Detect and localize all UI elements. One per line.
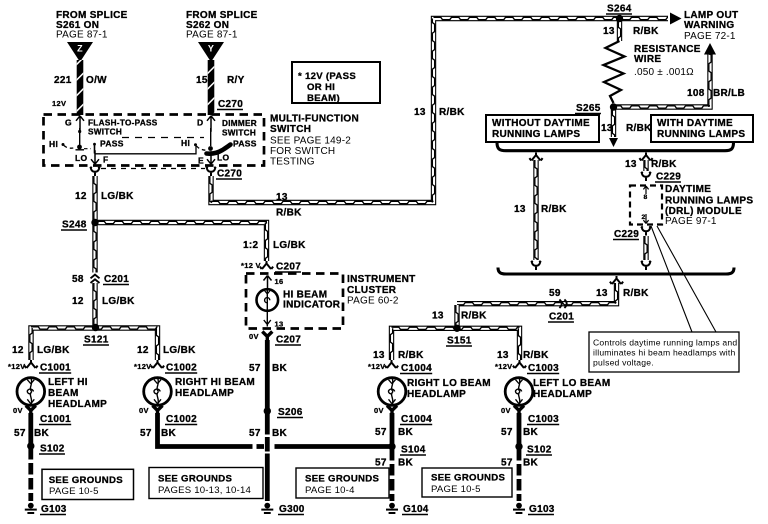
option bracket xyxy=(497,143,734,151)
svg-text:BK: BK xyxy=(523,427,539,438)
junction bus line xyxy=(498,268,734,275)
wire 13 R/BK from bus to C201 xyxy=(610,276,623,284)
svg-text:pulsed voltage.: pulsed voltage. xyxy=(593,358,654,368)
svg-text:PAGE 10-4: PAGE 10-4 xyxy=(305,485,355,496)
svg-text:C207: C207 xyxy=(276,335,301,346)
svg-text:57: 57 xyxy=(501,458,513,469)
svg-text:C1001: C1001 xyxy=(40,414,71,425)
wire BK to G104 xyxy=(390,449,395,501)
wire from DRL pin 2 to bus xyxy=(641,226,651,235)
wire 108 BR/LB to lamp out warning xyxy=(614,54,712,108)
svg-text:0V: 0V xyxy=(13,406,23,415)
svg-text:LO: LO xyxy=(217,153,229,163)
connector C1003 xyxy=(513,360,526,368)
wire 13 R/BK from S265 to bracket xyxy=(612,108,614,137)
svg-text:MULTI-FUNCTION: MULTI-FUNCTION xyxy=(270,114,359,125)
splice junction dots xyxy=(27,15,623,450)
svg-text:INDICATOR: INDICATOR xyxy=(283,300,341,311)
svg-text:13: 13 xyxy=(414,107,426,118)
ground bus wire to S104 xyxy=(158,444,253,447)
wire 57 BK left lo beam xyxy=(517,413,522,444)
wire 57 BK from indicator xyxy=(265,340,270,435)
dimmer lever to PASS xyxy=(207,145,231,154)
svg-text:PAGE 97-1: PAGE 97-1 xyxy=(665,216,717,227)
svg-text:13: 13 xyxy=(625,159,637,170)
svg-text:2: 2 xyxy=(642,214,646,221)
left lo beam headlamp bulb xyxy=(505,378,533,406)
svg-text:57: 57 xyxy=(249,428,261,439)
svg-text:illuminates hi beam headlamps: illuminates hi beam headlamps with xyxy=(593,348,735,358)
svg-text:12V: 12V xyxy=(52,99,66,108)
wire 13 R/BK to lo beam headlamps xyxy=(390,327,520,360)
svg-text:57: 57 xyxy=(14,428,26,439)
svg-text:BR/LB: BR/LB xyxy=(713,88,745,99)
svg-text:SWITCH: SWITCH xyxy=(222,129,256,138)
connector C1004 xyxy=(385,360,398,368)
wire BK to G103 xyxy=(28,448,33,501)
svg-text:221: 221 xyxy=(54,75,72,86)
svg-text:WARNING: WARNING xyxy=(684,20,734,31)
svg-text:*12V: *12V xyxy=(368,362,385,371)
svg-text:12: 12 xyxy=(137,345,149,356)
svg-text:16: 16 xyxy=(275,277,284,286)
wire 57 BK right lo beam xyxy=(390,413,395,444)
svg-text:BK: BK xyxy=(398,458,414,469)
connector C270 dashed link xyxy=(101,168,205,170)
svg-text:BK: BK xyxy=(523,458,539,469)
pin 13 xyxy=(264,311,271,327)
svg-text:C1002: C1002 xyxy=(166,363,197,374)
svg-text:RUNNING LAMPS: RUNNING LAMPS xyxy=(665,196,753,207)
svg-text:SEE GROUNDS: SEE GROUNDS xyxy=(431,473,506,484)
svg-text:C201: C201 xyxy=(549,312,574,323)
svg-text:G103: G103 xyxy=(529,504,555,515)
svg-text:57: 57 xyxy=(375,427,387,438)
svg-text:*12V: *12V xyxy=(495,362,512,371)
svg-text:HI: HI xyxy=(49,139,58,149)
wire 13 R/BK without DRL branch xyxy=(529,153,542,161)
svg-text:* 12V (PASS: * 12V (PASS xyxy=(298,71,356,82)
svg-text:S102: S102 xyxy=(40,444,65,455)
svg-text:RIGHT LO BEAM: RIGHT LO BEAM xyxy=(407,378,491,389)
svg-text:PAGE 87-1: PAGE 87-1 xyxy=(56,30,108,41)
DRL module box xyxy=(630,186,662,225)
connector C270 pin E xyxy=(206,167,216,176)
svg-text:13: 13 xyxy=(601,123,613,134)
see grounds box 1 xyxy=(42,469,134,499)
svg-text:HI: HI xyxy=(181,138,190,148)
svg-text:SWITCH: SWITCH xyxy=(88,128,122,137)
svg-text:C1004: C1004 xyxy=(401,414,432,425)
svg-text:LG/BK: LG/BK xyxy=(102,296,135,307)
svg-text:R/BK: R/BK xyxy=(651,159,677,170)
svg-text:RUNNING LAMPS: RUNNING LAMPS xyxy=(492,129,580,140)
svg-text:C1001: C1001 xyxy=(40,363,71,374)
svg-text:.050 ± .001Ω: .050 ± .001Ω xyxy=(634,67,694,78)
svg-text:WITH DAYTIME: WITH DAYTIME xyxy=(657,118,733,129)
svg-text:C1003: C1003 xyxy=(528,363,559,374)
see grounds box 2 xyxy=(149,468,263,499)
svg-text:R/BK: R/BK xyxy=(633,26,659,37)
svg-text:R/BK: R/BK xyxy=(626,123,652,134)
svg-text:F: F xyxy=(103,155,109,165)
svg-text:S104: S104 xyxy=(401,445,426,456)
svg-text:13: 13 xyxy=(275,320,284,329)
inline connector C201 58 xyxy=(91,275,100,283)
svg-text:FLASH-TO-PASS: FLASH-TO-PASS xyxy=(88,119,158,128)
svg-text:R/BK: R/BK xyxy=(461,311,487,322)
svg-text:R/BK: R/BK xyxy=(439,107,465,118)
svg-text:S102: S102 xyxy=(527,445,552,456)
svg-text:BEAM: BEAM xyxy=(48,388,79,399)
svg-text:HEADLAMP: HEADLAMP xyxy=(48,399,107,410)
svg-text:SEE GROUNDS: SEE GROUNDS xyxy=(158,474,233,485)
svg-text:Controls daytime running lamps: Controls daytime running lamps and xyxy=(593,338,737,348)
connector C1001 xyxy=(24,360,37,368)
svg-text:LEFT HI: LEFT HI xyxy=(48,377,88,388)
svg-text:C207: C207 xyxy=(276,262,301,273)
see grounds box 3 xyxy=(296,468,389,498)
ground G300 xyxy=(261,503,273,513)
flash-to-pass PASS contact xyxy=(94,144,96,154)
svg-text:INSTRUMENT: INSTRUMENT xyxy=(347,274,416,285)
callout note box xyxy=(589,332,739,372)
wire 12 LG/BK from pin F xyxy=(94,176,96,223)
svg-text:PAGE 10-5: PAGE 10-5 xyxy=(431,484,481,495)
right lo beam headlamp bulb xyxy=(378,378,406,406)
svg-text:WITHOUT DAYTIME: WITHOUT DAYTIME xyxy=(492,118,590,129)
svg-text:BK: BK xyxy=(34,428,50,439)
svg-text:HEADLAMP: HEADLAMP xyxy=(175,388,234,399)
svg-text:C270: C270 xyxy=(217,169,242,180)
svg-text:S265: S265 xyxy=(576,103,601,114)
svg-text:57: 57 xyxy=(249,363,261,374)
svg-text:SWITCH: SWITCH xyxy=(270,124,311,135)
svg-text:C229: C229 xyxy=(614,229,639,240)
svg-text:BK: BK xyxy=(272,363,288,374)
svg-text:G103: G103 xyxy=(41,504,67,515)
svg-text:108: 108 xyxy=(687,88,705,99)
connector C1002 xyxy=(151,360,164,368)
svg-text:0V: 0V xyxy=(501,406,511,415)
svg-text:LO: LO xyxy=(75,153,87,163)
connector C270 pin F xyxy=(90,167,100,176)
feed triangle Z xyxy=(67,42,93,62)
svg-text:0V: 0V xyxy=(139,406,149,415)
ground G103 right xyxy=(513,503,525,513)
svg-text:E: E xyxy=(198,156,204,166)
svg-text:*12V: *12V xyxy=(134,362,151,371)
svg-text:R/BK: R/BK xyxy=(523,350,549,361)
svg-text:DAYTIME: DAYTIME xyxy=(665,184,711,195)
note box 12V pass or hi beam xyxy=(292,62,380,103)
svg-text:R/Y: R/Y xyxy=(227,75,245,86)
svg-text:R/BK: R/BK xyxy=(541,204,567,215)
ground G103 xyxy=(25,503,37,513)
svg-text:S264: S264 xyxy=(607,4,632,15)
resistance wire xyxy=(604,41,625,103)
svg-text:RUNNING LAMPS: RUNNING LAMPS xyxy=(657,129,745,140)
wire 57 BK left hi beam xyxy=(28,413,33,444)
svg-text:BK: BK xyxy=(272,428,288,439)
wire 12 LG/BK to hi beam headlamps xyxy=(30,327,159,360)
svg-text:BEAM): BEAM) xyxy=(307,93,340,104)
svg-text:12: 12 xyxy=(75,191,87,202)
svg-text:PAGE 10-5: PAGE 10-5 xyxy=(49,486,99,497)
svg-text:HEADLAMP: HEADLAMP xyxy=(407,389,466,400)
svg-text:LG/BK: LG/BK xyxy=(101,191,134,202)
feed triangle Y xyxy=(198,42,224,62)
dimmer pivot xyxy=(208,146,213,151)
svg-text:TESTING: TESTING xyxy=(270,157,315,168)
with daytime running lamps box xyxy=(651,115,753,142)
svg-text:R/BK: R/BK xyxy=(623,288,649,299)
svg-text:S248: S248 xyxy=(62,220,87,231)
svg-text:S121: S121 xyxy=(84,335,109,346)
svg-text:8: 8 xyxy=(643,194,647,201)
svg-text:C1002: C1002 xyxy=(166,414,197,425)
svg-text:CLUSTER: CLUSTER xyxy=(347,285,397,296)
instrument cluster box xyxy=(246,274,343,329)
wire 12 LG/BK down to S121 xyxy=(94,224,96,273)
svg-text:*12V: *12V xyxy=(8,362,25,371)
linkage line to dimmer xyxy=(95,146,196,154)
svg-text:PASS: PASS xyxy=(100,139,124,149)
svg-text:G300: G300 xyxy=(279,504,305,515)
svg-text:12: 12 xyxy=(72,296,84,307)
svg-text:G: G xyxy=(65,118,72,128)
svg-text:PASS: PASS xyxy=(233,139,257,149)
svg-text:0V: 0V xyxy=(374,406,384,415)
svg-text:58: 58 xyxy=(72,274,84,285)
svg-text:13: 13 xyxy=(432,311,444,322)
svg-text:57: 57 xyxy=(140,428,152,439)
svg-text:R/BK: R/BK xyxy=(398,350,424,361)
svg-text:D: D xyxy=(197,118,203,128)
svg-text:C1003: C1003 xyxy=(528,414,559,425)
svg-text:13: 13 xyxy=(276,192,288,203)
svg-text:57: 57 xyxy=(375,458,387,469)
svg-text:13: 13 xyxy=(373,350,385,361)
svg-text:LG/BK: LG/BK xyxy=(273,240,306,251)
svg-text:13: 13 xyxy=(596,288,608,299)
pin 8 xyxy=(643,186,648,194)
right hi beam headlamp bulb xyxy=(144,378,172,406)
callout pointer lines xyxy=(651,226,716,332)
svg-text:0V: 0V xyxy=(249,332,259,341)
svg-text:SEE GROUNDS: SEE GROUNDS xyxy=(305,474,380,485)
svg-text:SEE PAGE 149-2: SEE PAGE 149-2 xyxy=(270,136,351,147)
wire 13 R/BK from dimmer to S264 xyxy=(210,17,668,203)
wire 15 R/Y from splice S262 xyxy=(208,60,215,115)
svg-text:Y: Y xyxy=(208,44,214,54)
svg-text:LG/BK: LG/BK xyxy=(37,345,70,356)
svg-text:C1004: C1004 xyxy=(401,363,432,374)
svg-text:O/W: O/W xyxy=(86,75,107,86)
svg-text:S151: S151 xyxy=(447,336,472,347)
flash-to-pass pivot xyxy=(77,145,82,150)
svg-text:WIRE: WIRE xyxy=(634,54,661,65)
svg-text:SEE GROUNDS: SEE GROUNDS xyxy=(49,475,124,486)
svg-text:C201: C201 xyxy=(104,274,129,285)
svg-text:59: 59 xyxy=(549,288,561,299)
without daytime running lamps box xyxy=(486,115,599,142)
wire 57 BK right hi beam xyxy=(155,413,160,444)
hi beam indicator bulb xyxy=(257,289,279,311)
svg-text:12: 12 xyxy=(12,345,24,356)
svg-text:C229: C229 xyxy=(656,172,681,183)
svg-text:LG/BK: LG/BK xyxy=(163,345,196,356)
svg-text:PAGE 72-1: PAGE 72-1 xyxy=(684,31,736,42)
svg-text:PAGE 60-2: PAGE 60-2 xyxy=(347,296,399,307)
svg-text:13: 13 xyxy=(514,204,526,215)
wire 12 LG/BK to instrument cluster xyxy=(97,221,268,261)
wire 13 R/BK below S264 xyxy=(618,20,620,41)
wire 13 R/BK to DRL module xyxy=(639,153,652,161)
see grounds box 4 xyxy=(422,468,512,497)
arrow to lamp out warning xyxy=(670,13,682,25)
svg-text:FOR SWITCH: FOR SWITCH xyxy=(270,146,335,157)
svg-text:RIGHT HI BEAM: RIGHT HI BEAM xyxy=(175,377,255,388)
svg-text:13: 13 xyxy=(497,350,509,361)
svg-text:13: 13 xyxy=(603,26,615,37)
svg-text:G104: G104 xyxy=(403,504,429,515)
svg-text:HEADLAMP: HEADLAMP xyxy=(533,389,592,400)
svg-text:BK: BK xyxy=(398,427,414,438)
connector C207 12V side xyxy=(260,261,273,269)
svg-text:DIMMER: DIMMER xyxy=(222,119,257,128)
svg-text:Z: Z xyxy=(77,44,83,54)
svg-text:BK: BK xyxy=(161,428,177,439)
svg-text:*12 V: *12 V xyxy=(241,261,261,270)
wire 221 O/W from splice S261 xyxy=(77,60,84,115)
svg-text:1:2: 1:2 xyxy=(243,240,258,251)
svg-text:S206: S206 xyxy=(278,407,303,418)
multi-function switch box xyxy=(44,115,265,166)
svg-text:R/BK: R/BK xyxy=(276,208,302,219)
svg-text:LEFT LO BEAM: LEFT LO BEAM xyxy=(533,378,610,389)
svg-text:15: 15 xyxy=(196,75,208,86)
svg-text:C270: C270 xyxy=(218,99,243,110)
inline connector C201 59 xyxy=(559,300,566,308)
wire 13 R/BK down to S151 xyxy=(456,305,458,328)
svg-text:PAGE 87-1: PAGE 87-1 xyxy=(186,30,238,41)
svg-text:OR HI: OR HI xyxy=(307,82,335,93)
svg-text:57: 57 xyxy=(501,427,513,438)
wire BK to G103 right xyxy=(517,449,522,501)
pin 16 xyxy=(264,276,272,290)
ground G104 xyxy=(386,503,398,513)
svg-text:PAGES 10-13, 10-14: PAGES 10-13, 10-14 xyxy=(158,485,251,496)
left hi beam headlamp bulb xyxy=(17,378,45,406)
linkage dashed line xyxy=(122,137,204,139)
